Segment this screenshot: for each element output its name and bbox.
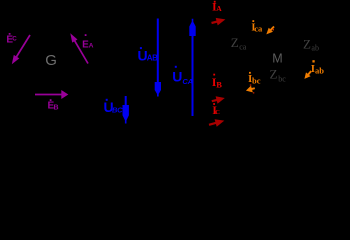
phase current I_ca arrow (270, 27, 274, 31)
svg-text:BC: BC (112, 106, 123, 115)
svg-text:A: A (216, 4, 222, 13)
emf phasor E_A arrow (74, 40, 88, 63)
svg-text:ab: ab (315, 66, 324, 76)
load impedance Z_bc label (270, 67, 287, 84)
emf phasor E_C arrow (16, 35, 30, 58)
line current I_B arrow (212, 100, 218, 101)
svg-text:U: U (172, 68, 182, 84)
svg-text:bc: bc (278, 74, 286, 83)
emf label E_A (82, 34, 94, 50)
phase current I_ab arrow (308, 71, 312, 75)
svg-text:ca: ca (239, 43, 247, 52)
svg-text:A: A (89, 43, 94, 50)
emf label E_B (48, 99, 59, 111)
red speck on I_ca arrow (273, 29, 274, 31)
load impedance Z_ab label (303, 37, 319, 53)
red speck above I_bc arrow (250, 84, 252, 85)
line voltage U_BC arrow (125, 96, 127, 106)
svg-text:G: G (45, 52, 57, 69)
load impedance Z_ca label (231, 35, 247, 52)
phase current I_bc label (248, 72, 261, 86)
phase current I_ca label (251, 20, 263, 33)
label U_BC (104, 99, 124, 115)
svg-text:C: C (215, 109, 220, 116)
label U_AB (138, 47, 159, 63)
red speck below I_bc arrow (253, 92, 254, 93)
svg-text:B: B (216, 80, 222, 90)
svg-text:AB: AB (147, 53, 158, 62)
svg-text:Z: Z (303, 37, 311, 52)
svg-text:ca: ca (254, 23, 263, 33)
svg-text:M: M (272, 52, 282, 66)
emf label E_C (6, 33, 17, 45)
line voltage U_CA arrow (192, 35, 194, 116)
svg-text:CA: CA (182, 77, 192, 86)
phase current I_ab label (311, 60, 325, 75)
phase current I_bc arrow (251, 88, 255, 89)
line current I_C arrow (209, 123, 217, 125)
emf phasor E_B arrow (35, 94, 62, 96)
line current I_B label (212, 74, 223, 90)
line current I_A label (212, 0, 222, 13)
svg-text:C: C (12, 36, 17, 43)
svg-text:Z: Z (231, 35, 239, 50)
svg-text:bc: bc (252, 76, 261, 86)
svg-text:ab: ab (311, 43, 319, 52)
line current I_A arrow (212, 21, 218, 23)
line voltage U_AB arrow (157, 19, 159, 84)
svg-text:B: B (54, 104, 59, 111)
svg-text:Z: Z (270, 67, 278, 82)
label U_CA (172, 66, 193, 86)
line current I_C label (212, 103, 220, 117)
